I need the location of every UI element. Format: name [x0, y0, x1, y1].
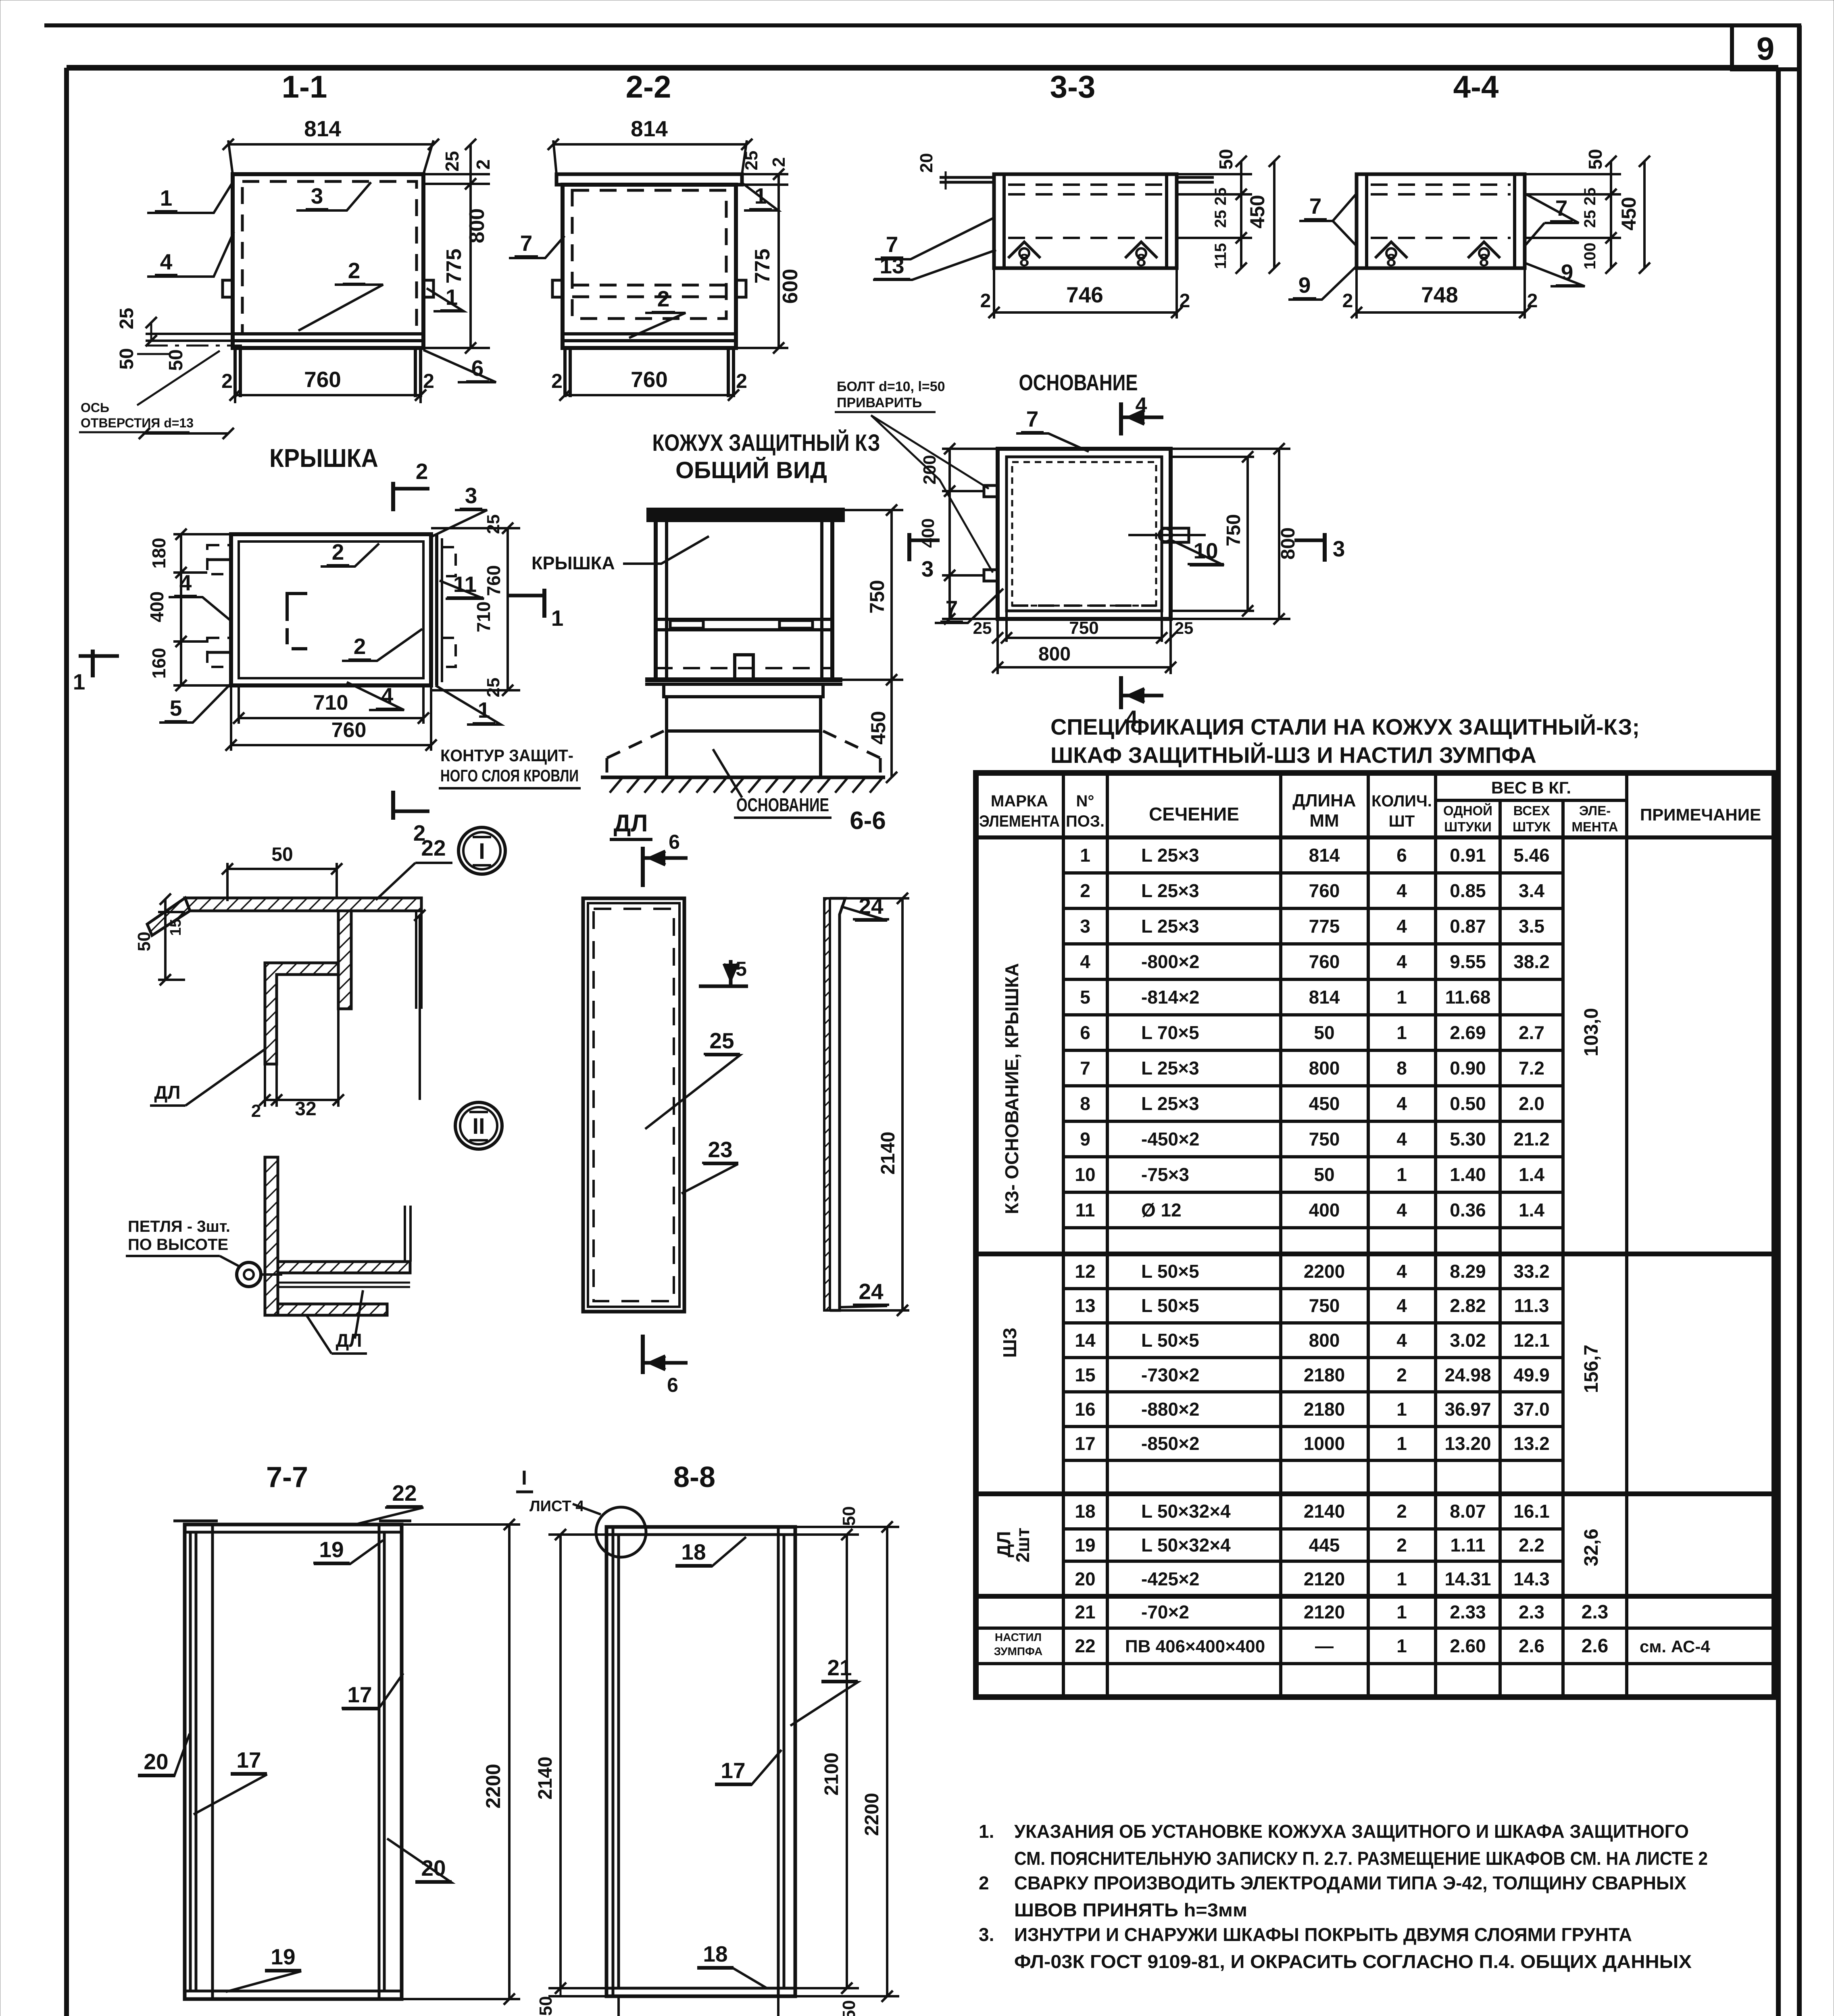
svg-text:0.85: 0.85 — [1450, 880, 1486, 901]
svg-text:8.07: 8.07 — [1450, 1501, 1486, 1522]
detail I wall plate — [338, 911, 351, 1009]
svg-text:12.1: 12.1 — [1513, 1330, 1550, 1351]
base inner weld squiggle — [1012, 462, 1156, 606]
detail I inner angle — [265, 963, 338, 1064]
svg-text:2.33: 2.33 — [1450, 1602, 1486, 1622]
svg-text:750: 750 — [1223, 514, 1244, 546]
svg-text:ДЛ: ДЛ — [336, 1330, 362, 1351]
svg-text:5: 5 — [736, 958, 747, 980]
svg-text:L 70×5: L 70×5 — [1141, 1022, 1199, 1043]
svg-text:ЭЛЕМЕНТА: ЭЛЕМЕНТА — [979, 812, 1060, 830]
svg-text:-75×3: -75×3 — [1141, 1164, 1189, 1185]
svg-text:1: 1 — [1396, 1568, 1407, 1589]
svg-text:21: 21 — [827, 1655, 852, 1680]
svg-text:37.0: 37.0 — [1513, 1399, 1550, 1420]
base left tabs — [984, 485, 998, 497]
svg-text:25: 25 — [1175, 619, 1194, 637]
svg-text:11: 11 — [1075, 1200, 1095, 1220]
svg-text:4: 4 — [179, 570, 192, 595]
svg-text:2120: 2120 — [1304, 1602, 1345, 1622]
view 1-1 side tabs — [223, 280, 233, 297]
svg-text:32,6: 32,6 — [1581, 1529, 1602, 1566]
svg-text:17: 17 — [347, 1682, 372, 1707]
svg-text:КРЫШКА: КРЫШКА — [269, 444, 378, 473]
svg-text:L 25×3: L 25×3 — [1141, 916, 1199, 937]
svg-text:2: 2 — [980, 290, 991, 312]
view 2-2 box — [563, 185, 736, 348]
svg-text:1.40: 1.40 — [1450, 1164, 1486, 1185]
svg-text:II: II — [472, 1113, 485, 1139]
svg-text:156,7: 156,7 — [1581, 1345, 1602, 1393]
8-8 detail circle — [596, 1507, 646, 1557]
svg-text:400: 400 — [918, 518, 938, 548]
svg-text:ПВ 406×400×400: ПВ 406×400×400 — [1125, 1637, 1265, 1656]
svg-text:L 25×3: L 25×3 — [1141, 1058, 1199, 1079]
svg-text:N°: N° — [1076, 792, 1094, 810]
svg-text:760: 760 — [1309, 951, 1340, 972]
svg-text:3.: 3. — [979, 1924, 994, 1945]
svg-text:0.50: 0.50 — [1450, 1093, 1486, 1114]
svg-text:2.69: 2.69 — [1450, 1022, 1486, 1043]
svg-text:18: 18 — [681, 1539, 706, 1564]
svg-text:ДЛ: ДЛ — [614, 810, 648, 837]
svg-text:ФЛ-03К ГОСТ 9109-81, И ОКРАСИТ: ФЛ-03К ГОСТ 9109-81, И ОКРАСИТЬ СОГЛАСНО… — [1014, 1951, 1692, 1972]
svg-text:см. АС-4: см. АС-4 — [1640, 1637, 1710, 1656]
svg-text:1-1: 1-1 — [282, 69, 327, 104]
svg-text:0.87: 0.87 — [1450, 916, 1486, 937]
svg-text:22: 22 — [392, 1481, 417, 1506]
svg-text:-730×2: -730×2 — [1141, 1364, 1200, 1385]
svg-text:ШКАФ ЗАЩИТНЫЙ-ШЗ И НАСТИЛ: ШКАФ ЗАЩИТНЫЙ-ШЗ И НАСТИЛ ЗУМПФА — [1050, 742, 1536, 768]
svg-text:1: 1 — [1396, 1602, 1407, 1622]
lid right double edge — [435, 534, 438, 685]
svg-text:5.30: 5.30 — [1450, 1129, 1486, 1150]
svg-text:ШТУК: ШТУК — [1513, 819, 1551, 834]
svg-text:МАРКА: МАРКА — [991, 792, 1048, 810]
svg-text:2: 2 — [1527, 290, 1538, 312]
svg-text:КОНТУР ЗАЩИТ-: КОНТУР ЗАЩИТ- — [440, 746, 573, 765]
svg-text:0.91: 0.91 — [1450, 845, 1486, 866]
svg-text:18: 18 — [1075, 1501, 1095, 1522]
svg-text:1: 1 — [73, 669, 85, 694]
svg-text:12: 12 — [1075, 1261, 1095, 1282]
svg-text:L 50×5: L 50×5 — [1141, 1261, 1199, 1282]
svg-text:2.2: 2.2 — [1519, 1535, 1544, 1556]
detail I dim 50 left — [158, 911, 185, 913]
svg-text:КОЖУХ ЗАЩИТНЫЙ КЗ: КОЖУХ ЗАЩИТНЫЙ КЗ — [652, 430, 880, 456]
svg-text:-800×2: -800×2 — [1141, 951, 1200, 972]
lid section flags 2 top/bottom — [391, 482, 395, 511]
svg-text:ПОЗ.: ПОЗ. — [1066, 812, 1105, 830]
base left dim 200/400 — [942, 448, 998, 450]
svg-text:180: 180 — [148, 538, 169, 569]
svg-text:7: 7 — [1080, 1058, 1090, 1079]
svg-text:1: 1 — [1396, 1433, 1407, 1454]
svg-text:1000: 1000 — [1304, 1433, 1345, 1454]
svg-text:800: 800 — [1309, 1330, 1340, 1351]
svg-text:ОСЬ: ОСЬ — [81, 400, 109, 415]
svg-text:4: 4 — [1396, 880, 1407, 901]
svg-text:14.3: 14.3 — [1513, 1568, 1550, 1589]
svg-text:21.2: 21.2 — [1513, 1129, 1550, 1150]
svg-text:2: 2 — [979, 1872, 989, 1893]
svg-text:2: 2 — [1396, 1535, 1407, 1556]
svg-text:I: I — [479, 838, 485, 864]
detail II door edge lines — [404, 1206, 406, 1262]
svg-text:24: 24 — [859, 1279, 884, 1304]
main frame — [67, 65, 1778, 71]
svg-text:50: 50 — [1314, 1164, 1334, 1185]
svg-text:-425×2: -425×2 — [1141, 1568, 1200, 1589]
detail II hinge — [237, 1262, 261, 1287]
svg-text:4: 4 — [1396, 1330, 1407, 1351]
svg-text:775: 775 — [751, 249, 774, 284]
svg-text:710: 710 — [313, 691, 348, 714]
spec table header — [976, 835, 1774, 839]
8-8 inner verticals — [612, 1527, 615, 1996]
svg-text:7: 7 — [520, 231, 533, 256]
svg-text:7: 7 — [1309, 194, 1322, 219]
svg-text:775: 775 — [442, 249, 466, 284]
svg-text:200: 200 — [920, 455, 940, 484]
svg-text:19: 19 — [1075, 1535, 1095, 1556]
detail II circle marker — [455, 1102, 502, 1149]
svg-text:2: 2 — [1396, 1501, 1407, 1522]
svg-text:0.36: 0.36 — [1450, 1200, 1486, 1220]
svg-text:НАСТИЛ: НАСТИЛ — [995, 1631, 1042, 1643]
svg-text:2: 2 — [348, 258, 361, 283]
lid plan outer — [231, 534, 431, 685]
svg-text:19: 19 — [319, 1537, 344, 1562]
svg-text:445: 445 — [1309, 1535, 1340, 1556]
detail II lower shelf — [278, 1304, 387, 1315]
svg-text:750: 750 — [1309, 1129, 1340, 1150]
svg-text:ПЕТЛЯ - 3шт.: ПЕТЛЯ - 3шт. — [128, 1218, 230, 1235]
svg-text:СМ. ПОЯСНИТЕЛЬНУЮ ЗАПИСКУ П. 2: СМ. ПОЯСНИТЕЛЬНУЮ ЗАПИСКУ П. 2.7. РАЗМЕЩ… — [1014, 1848, 1708, 1869]
svg-text:4: 4 — [1396, 1129, 1407, 1150]
svg-text:8: 8 — [1396, 1058, 1407, 1079]
svg-text:22: 22 — [421, 835, 446, 860]
svg-text:2.6: 2.6 — [1582, 1635, 1609, 1657]
view 1-1 left dims 25/50/50 — [150, 323, 152, 341]
kozhukh bottom band — [645, 677, 842, 682]
svg-text:25: 25 — [484, 514, 503, 534]
svg-text:7-7: 7-7 — [266, 1461, 308, 1493]
view 3-3 dashed lines — [1008, 183, 1163, 186]
svg-text:2: 2 — [1396, 1364, 1407, 1385]
svg-text:750: 750 — [1069, 618, 1098, 638]
view 2-2 top dim 814 — [553, 140, 556, 174]
svg-text:5: 5 — [1080, 987, 1090, 1008]
svg-text:3.5: 3.5 — [1519, 916, 1544, 937]
svg-text:3: 3 — [1333, 536, 1345, 561]
DL flag 5 — [729, 960, 733, 986]
svg-text:4: 4 — [1136, 394, 1147, 417]
6-6 dim 2140 — [845, 897, 909, 900]
svg-text:-880×2: -880×2 — [1141, 1399, 1200, 1420]
svg-text:СВАРКУ ПРОИЗВОДИТЬ ЭЛЕКТРОДАМИ: СВАРКУ ПРОИЗВОДИТЬ ЭЛЕКТРОДАМИ ТИПА Э-42… — [1014, 1872, 1686, 1893]
svg-text:2140: 2140 — [877, 1132, 899, 1175]
svg-text:Ø 12: Ø 12 — [1141, 1200, 1182, 1220]
svg-text:450: 450 — [867, 711, 890, 744]
svg-text:ММ: ММ — [1309, 811, 1339, 831]
svg-text:800: 800 — [465, 208, 489, 244]
svg-text:2.82: 2.82 — [1450, 1295, 1486, 1316]
svg-text:-70×2: -70×2 — [1141, 1602, 1189, 1622]
svg-text:2-2: 2-2 — [626, 69, 671, 104]
svg-text:2: 2 — [657, 286, 670, 311]
svg-text:710: 710 — [473, 602, 494, 633]
svg-text:18: 18 — [703, 1941, 727, 1966]
svg-text:760: 760 — [1309, 880, 1340, 901]
svg-text:2: 2 — [416, 459, 428, 484]
svg-text:СЕЧЕНИЕ: СЕЧЕНИЕ — [1149, 804, 1239, 825]
svg-text:1: 1 — [551, 606, 564, 631]
view 3-3 corner braces 8 — [1008, 242, 1040, 258]
svg-text:760: 760 — [483, 565, 504, 596]
view 1-1 bottom dim 760 — [234, 397, 236, 403]
svg-text:2140: 2140 — [535, 1757, 556, 1800]
svg-text:20: 20 — [917, 153, 936, 173]
page outer top line — [44, 23, 1799, 27]
svg-text:ОТВЕРСТИЯ d=13: ОТВЕРСТИЯ d=13 — [81, 416, 194, 430]
svg-text:ШЗ: ШЗ — [999, 1327, 1020, 1358]
svg-text:11: 11 — [453, 572, 477, 597]
svg-text:2140: 2140 — [1304, 1501, 1345, 1522]
svg-text:14.31: 14.31 — [1444, 1568, 1491, 1589]
8-8 outer rect — [606, 1527, 795, 1996]
svg-text:ВЕС В КГ.: ВЕС В КГ. — [1491, 778, 1571, 797]
svg-text:1: 1 — [1396, 1399, 1407, 1420]
svg-text:ДЛИНА: ДЛИНА — [1292, 791, 1356, 810]
svg-text:6: 6 — [1396, 845, 1407, 866]
svg-text:СПЕЦИФИКАЦИЯ СТАЛИ НА КОЖУХ: СПЕЦИФИКАЦИЯ СТАЛИ НА КОЖУХ ЗАЩИТНЫЙ-КЗ; — [1050, 714, 1640, 739]
svg-text:760: 760 — [304, 367, 341, 392]
view 1-1 legs — [233, 348, 237, 397]
svg-text:4: 4 — [160, 249, 173, 274]
svg-text:7: 7 — [1026, 406, 1039, 431]
svg-text:17: 17 — [1075, 1433, 1095, 1454]
svg-text:9: 9 — [1757, 31, 1775, 67]
svg-text:2: 2 — [251, 1101, 261, 1121]
svg-text:-850×2: -850×2 — [1141, 1433, 1200, 1454]
svg-text:746: 746 — [1066, 282, 1103, 307]
svg-text:11.68: 11.68 — [1445, 987, 1491, 1008]
svg-text:3: 3 — [921, 556, 934, 581]
svg-text:33.2: 33.2 — [1513, 1261, 1550, 1282]
detail I bottom dims 2 32 — [264, 1064, 266, 1107]
svg-text:13: 13 — [1075, 1295, 1095, 1316]
detail I top plate — [185, 898, 421, 911]
svg-text:ПРИВАРИТЬ: ПРИВАРИТЬ — [837, 395, 922, 410]
svg-text:L 50×32×4: L 50×32×4 — [1141, 1501, 1231, 1522]
svg-text:50: 50 — [536, 1996, 556, 2016]
svg-text:36.97: 36.97 — [1444, 1399, 1491, 1420]
svg-text:22: 22 — [1075, 1635, 1095, 1656]
svg-text:6: 6 — [667, 1374, 678, 1396]
svg-text:50: 50 — [839, 1506, 859, 1526]
svg-text:-814×2: -814×2 — [1141, 987, 1200, 1008]
7-7 outer rect — [185, 1524, 402, 1999]
7-7 inner verticals — [189, 1532, 192, 1991]
svg-text:НОГО СЛОЯ КРОВЛИ: НОГО СЛОЯ КРОВЛИ — [440, 766, 579, 785]
svg-text:ОСНОВАНИЕ: ОСНОВАНИЕ — [1019, 370, 1138, 395]
view 1-1 right dims 25/2/800/775 — [423, 173, 490, 175]
svg-text:15: 15 — [167, 919, 184, 936]
7-7 top corner caps — [173, 1520, 218, 1522]
svg-text:2.3: 2.3 — [1582, 1602, 1609, 1623]
svg-text:2.7: 2.7 — [1519, 1022, 1544, 1043]
view 4-4 bottom dim 748 — [1355, 268, 1358, 319]
svg-text:7.2: 7.2 — [1519, 1058, 1544, 1079]
svg-text:814: 814 — [1309, 845, 1340, 866]
page number box — [1732, 25, 1799, 69]
svg-text:13: 13 — [879, 253, 904, 278]
DL flag 6 bottom — [641, 1335, 645, 1374]
kozhukh body — [656, 520, 832, 680]
view 4-4 dashed lines — [1371, 183, 1511, 186]
svg-text:17: 17 — [721, 1758, 745, 1783]
svg-text:450: 450 — [1309, 1093, 1340, 1114]
svg-text:814: 814 — [631, 116, 668, 141]
view 1-1 box — [233, 174, 423, 348]
detail I circle marker — [458, 827, 505, 874]
svg-text:24.98: 24.98 — [1444, 1364, 1491, 1385]
svg-text:9: 9 — [1080, 1129, 1090, 1150]
7-7 dim 2200 — [402, 1523, 520, 1526]
detail I side face lines — [415, 911, 417, 1009]
svg-text:2: 2 — [769, 157, 789, 167]
8-8 dims right 2100/2200/50 — [795, 1526, 899, 1528]
svg-text:8: 8 — [1080, 1093, 1090, 1114]
svg-text:4: 4 — [1080, 951, 1090, 972]
svg-text:КРЫШКА: КРЫШКА — [531, 553, 615, 573]
svg-text:ШТ: ШТ — [1389, 812, 1415, 830]
svg-text:2100: 2100 — [821, 1753, 842, 1796]
ground line and hatch — [601, 776, 885, 779]
svg-text:1.11: 1.11 — [1451, 1535, 1486, 1556]
svg-text:2: 2 — [354, 634, 366, 659]
view 4-4 box — [1357, 174, 1525, 268]
svg-text:25: 25 — [742, 151, 761, 171]
svg-text:4: 4 — [1396, 1200, 1407, 1220]
svg-text:760: 760 — [631, 367, 668, 392]
svg-text:38.2: 38.2 — [1513, 951, 1550, 972]
svg-text:21: 21 — [1075, 1602, 1095, 1622]
kozhukh lid bar — [649, 510, 842, 520]
svg-text:БОЛТ d=10, l=50: БОЛТ d=10, l=50 — [837, 379, 945, 394]
detail I bent lip — [147, 898, 190, 935]
base flag 4 bottom — [1119, 676, 1123, 709]
view 2-2 legs — [563, 348, 567, 397]
svg-text:4: 4 — [1396, 1093, 1407, 1114]
svg-text:2: 2 — [423, 370, 434, 392]
svg-text:8: 8 — [1479, 250, 1489, 270]
kozhukh pedestal — [664, 684, 823, 697]
flag 3 right — [907, 533, 911, 561]
svg-text:2: 2 — [736, 370, 747, 392]
lid right tabs — [442, 547, 456, 576]
6-6 plate — [824, 898, 830, 1310]
svg-text:20: 20 — [1075, 1568, 1095, 1589]
base dashed inner — [1012, 604, 1156, 607]
DL flag 6 top — [641, 847, 645, 887]
svg-text:1: 1 — [1396, 1164, 1407, 1185]
svg-text:450: 450 — [1617, 197, 1640, 230]
svg-text:L 25×3: L 25×3 — [1141, 880, 1199, 901]
svg-text:17: 17 — [236, 1747, 261, 1772]
svg-text:2: 2 — [221, 370, 233, 392]
svg-text:2: 2 — [332, 539, 344, 564]
svg-text:2: 2 — [1342, 290, 1353, 312]
svg-text:25 25: 25 25 — [1581, 187, 1599, 228]
svg-text:L 50×5: L 50×5 — [1141, 1295, 1199, 1316]
svg-text:L 50×5: L 50×5 — [1141, 1330, 1199, 1351]
svg-text:3.02: 3.02 — [1450, 1330, 1486, 1351]
svg-text:L 25×3: L 25×3 — [1141, 1093, 1199, 1114]
svg-text:ШВОВ ПРИНЯТЬ h=3мм: ШВОВ ПРИНЯТЬ h=3мм — [1014, 1899, 1247, 1920]
svg-text:2180: 2180 — [1304, 1364, 1345, 1385]
svg-text:2: 2 — [1080, 880, 1090, 901]
view 2-2 side tabs — [552, 280, 563, 297]
base right bolt — [1162, 528, 1189, 542]
svg-text:2200: 2200 — [1304, 1261, 1345, 1282]
detail II wall plate — [265, 1157, 278, 1315]
svg-text:8: 8 — [1386, 250, 1396, 270]
spec table outer border — [976, 773, 1774, 1697]
svg-text:4: 4 — [1396, 951, 1407, 972]
view 2-2 lid plate — [556, 174, 742, 185]
svg-text:8: 8 — [1019, 250, 1029, 270]
svg-text:ЗУМПФА: ЗУМПФА — [994, 1645, 1043, 1658]
svg-text:14: 14 — [1075, 1330, 1096, 1351]
svg-text:9: 9 — [1298, 273, 1311, 298]
svg-text:3: 3 — [311, 183, 323, 208]
8-8 dims left 2140/50 — [548, 1533, 613, 1536]
svg-text:760: 760 — [331, 719, 367, 742]
svg-text:2200: 2200 — [861, 1793, 883, 1836]
svg-text:400: 400 — [1309, 1200, 1340, 1220]
svg-text:1: 1 — [1396, 1022, 1407, 1043]
DL rect — [583, 898, 684, 1312]
view 2-2 right dims — [742, 173, 788, 175]
svg-text:ШТУКИ: ШТУКИ — [1444, 819, 1492, 834]
svg-text:20: 20 — [144, 1749, 168, 1774]
svg-text:6-6: 6-6 — [850, 807, 886, 835]
svg-text:115: 115 — [1212, 243, 1230, 269]
svg-text:ВСЕХ: ВСЕХ — [1513, 803, 1550, 818]
svg-text:25: 25 — [973, 619, 992, 637]
view 4-4 corner braces 8 — [1375, 242, 1407, 258]
svg-text:750: 750 — [1309, 1295, 1340, 1316]
svg-text:32: 32 — [295, 1098, 316, 1120]
lid right dim chain 25/760/710/25 — [506, 528, 509, 690]
svg-text:2: 2 — [551, 370, 563, 392]
svg-text:8: 8 — [1136, 250, 1146, 270]
svg-text:ПРИМЕЧАНИЕ: ПРИМЕЧАНИЕ — [1640, 805, 1761, 824]
detail I dim 50 top — [226, 863, 229, 901]
8-8 bottom dim 750 — [617, 1996, 620, 2016]
base right dims 750/800 — [1171, 448, 1290, 450]
svg-text:50: 50 — [271, 844, 293, 865]
svg-text:50: 50 — [1314, 1022, 1334, 1043]
svg-text:0.90: 0.90 — [1450, 1058, 1486, 1079]
svg-text:6: 6 — [1080, 1022, 1090, 1043]
svg-text:2.60: 2.60 — [1450, 1635, 1486, 1656]
detail II upper shelf — [278, 1262, 410, 1273]
svg-text:КЗ- ОСНОВАНИЕ, КРЫШКА: КЗ- ОСНОВАНИЕ, КРЫШКА — [1001, 963, 1022, 1214]
svg-text:2.6: 2.6 — [1519, 1635, 1544, 1656]
